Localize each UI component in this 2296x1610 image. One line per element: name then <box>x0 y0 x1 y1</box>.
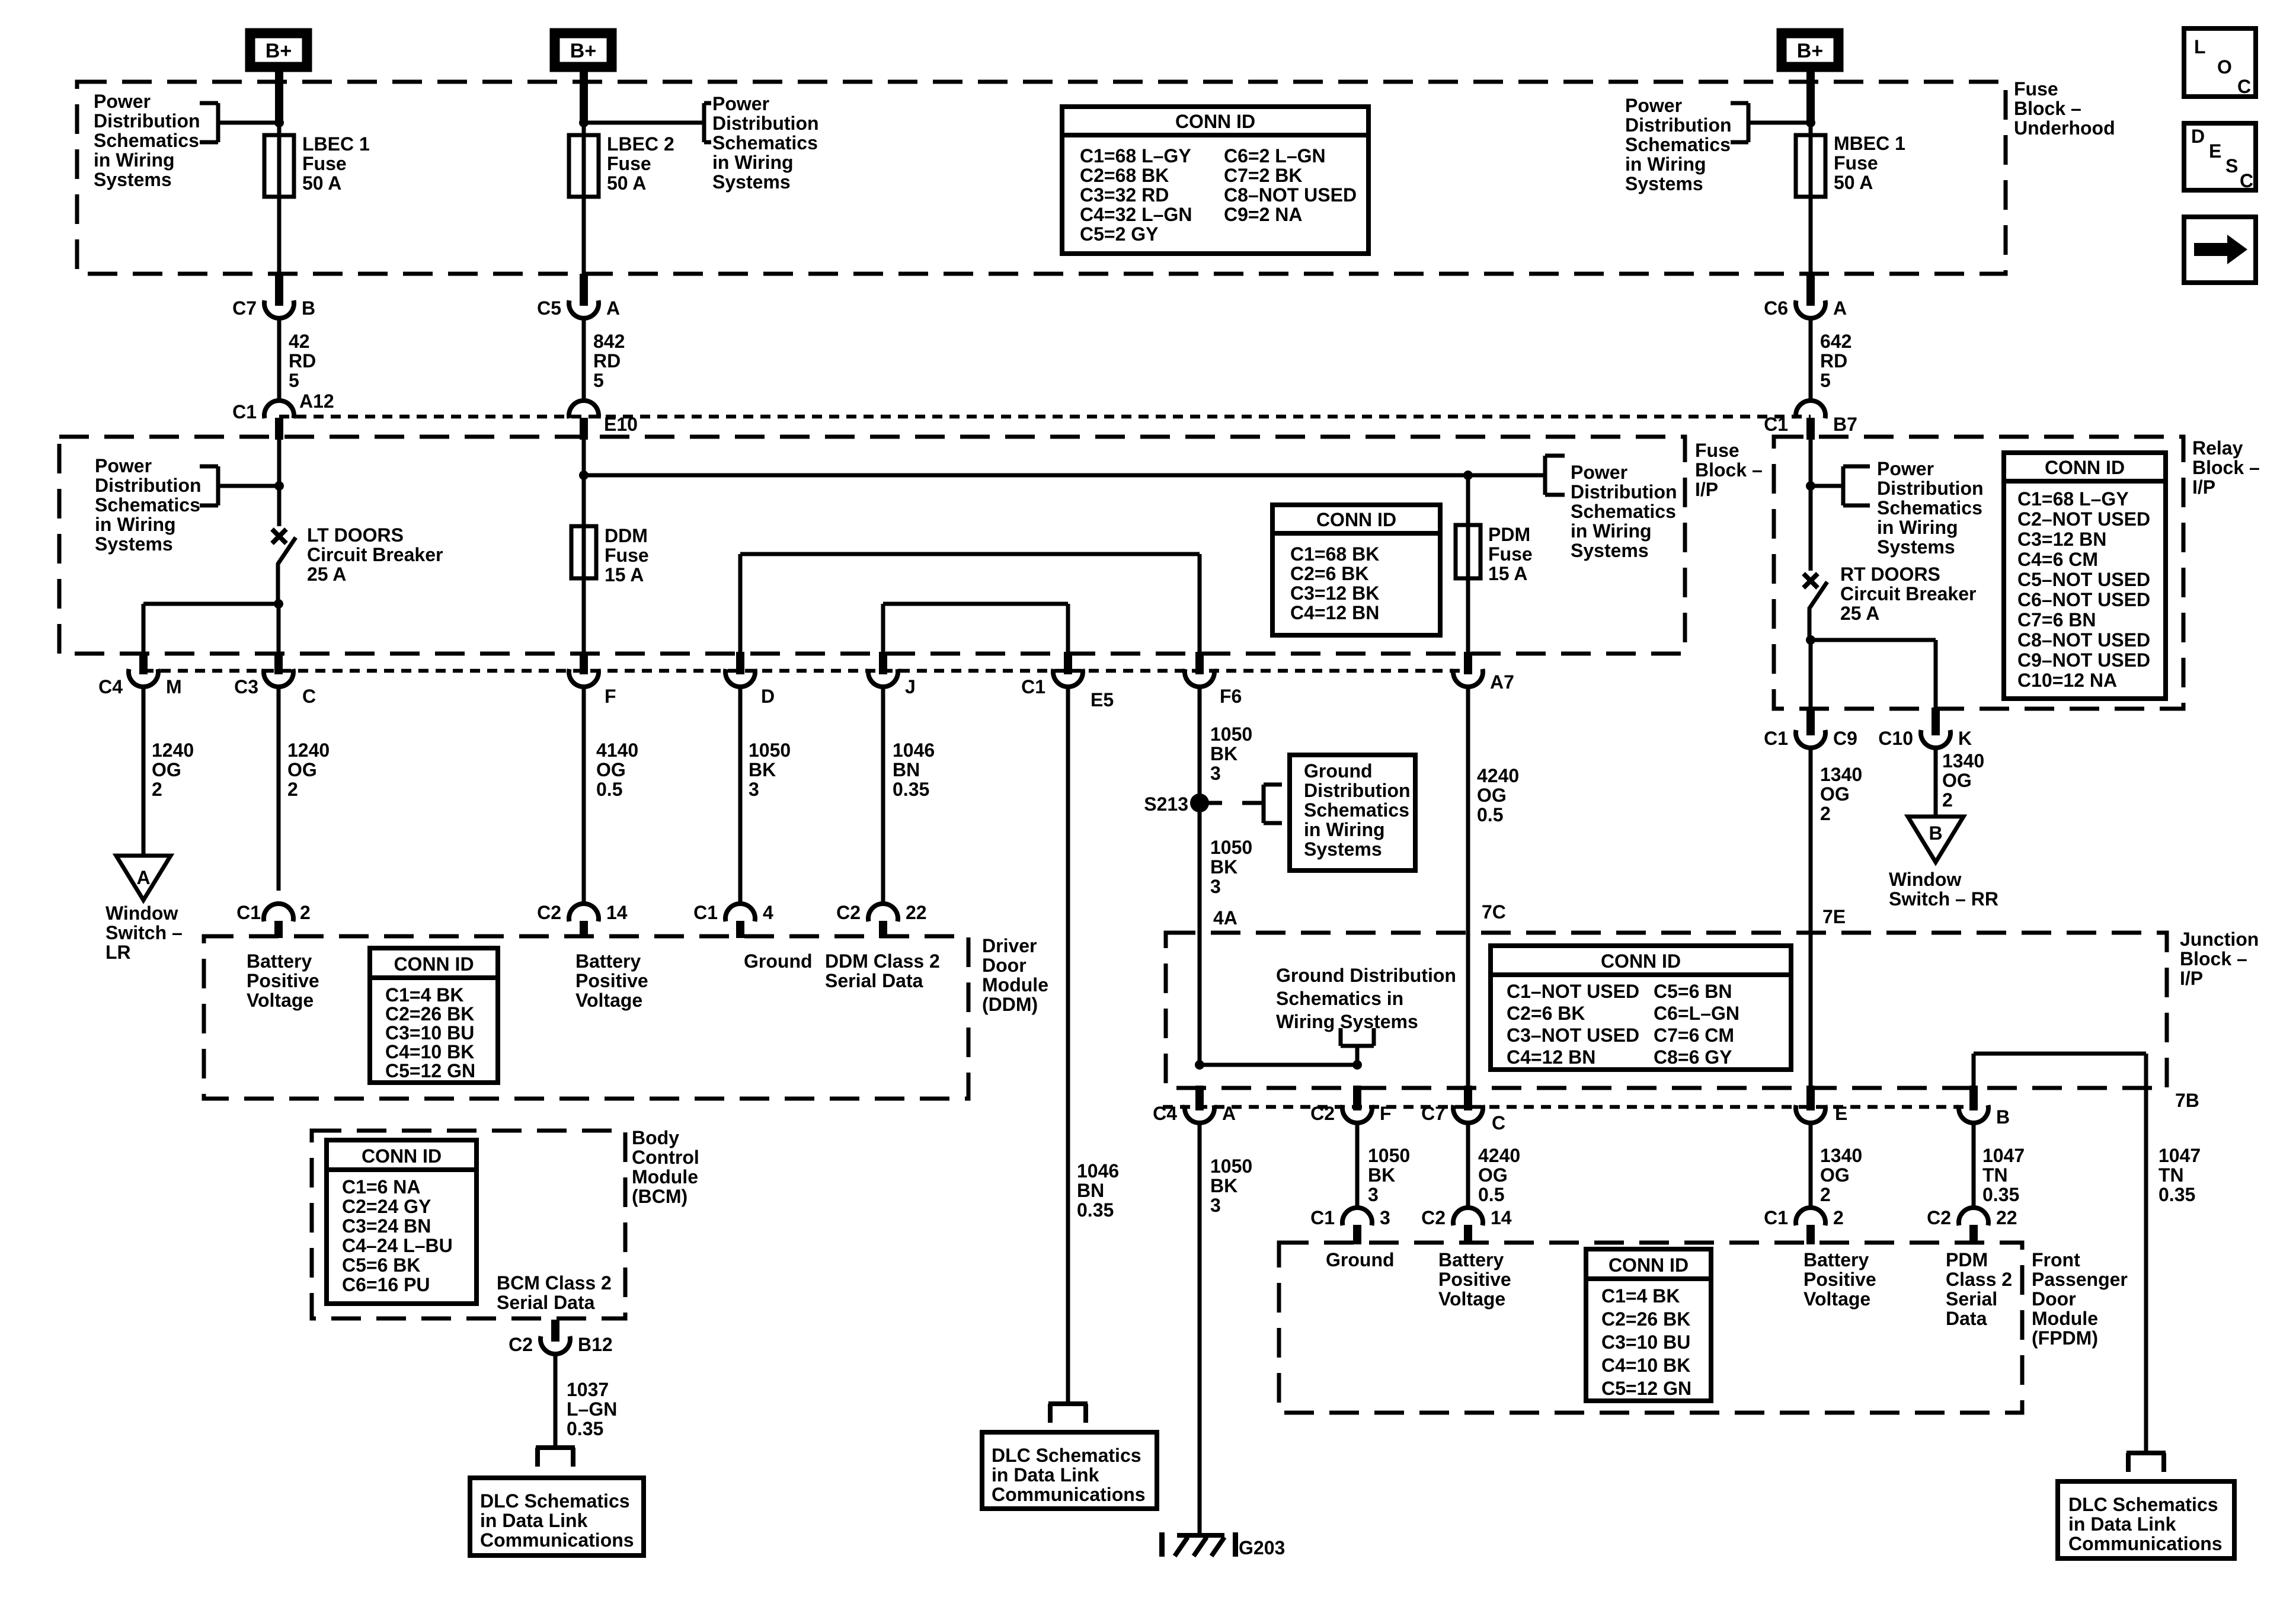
connector C7 pin B <box>275 274 283 306</box>
svg-text:E: E <box>2209 140 2221 162</box>
table CONN ID (DDM) <box>370 948 498 1083</box>
svg-text:C1=4 BK: C1=4 BK <box>1601 1285 1680 1307</box>
svg-text:C9: C9 <box>1833 728 1857 749</box>
svg-text:Distribution: Distribution <box>1877 478 1984 499</box>
svg-text:C5–NOT USED: C5–NOT USED <box>2017 569 2150 590</box>
svg-text:Voltage: Voltage <box>1803 1288 1870 1310</box>
svg-text:Voltage: Voltage <box>1438 1288 1505 1310</box>
node junction LBEC2 bracket <box>579 118 589 127</box>
svg-text:Positive: Positive <box>247 970 319 991</box>
svg-text:Battery: Battery <box>1438 1249 1504 1270</box>
svg-text:C5=12 GN: C5=12 GN <box>385 1060 475 1081</box>
svg-text:Driver: Driver <box>982 935 1037 956</box>
svg-text:50 A: 50 A <box>607 172 646 194</box>
svg-text:Passenger: Passenger <box>2032 1269 2128 1290</box>
svg-text:C7: C7 <box>1421 1103 1446 1124</box>
svg-text:C1=4 BK: C1=4 BK <box>385 984 464 1006</box>
svg-text:Block –: Block – <box>2192 457 2260 478</box>
svg-text:BK: BK <box>1210 856 1237 878</box>
svg-text:642: 642 <box>1820 331 1851 352</box>
svg-text:OG: OG <box>287 759 317 780</box>
wire 1240 OG 2 (window switch LR) <box>142 686 146 856</box>
svg-text:A: A <box>1833 297 1847 319</box>
svg-text:C: C <box>1492 1112 1505 1134</box>
svg-text:OG: OG <box>152 759 181 780</box>
circuit breaker LT DOORS 25 A <box>272 529 286 543</box>
svg-text:BK: BK <box>1368 1164 1395 1186</box>
off-page pointer to DLC (right) <box>2126 1451 2166 1455</box>
wire 642 RD 5 <box>1809 317 1813 402</box>
connector C7 pin C <box>1464 1086 1472 1110</box>
svg-text:Positive: Positive <box>1438 1269 1511 1290</box>
svg-text:Voltage: Voltage <box>247 990 314 1011</box>
svg-text:Communications: Communications <box>2068 1533 2223 1554</box>
svg-text:2: 2 <box>300 902 311 923</box>
node junction LBEC1 in fuse block I/P <box>274 481 284 491</box>
svg-text:Distribution: Distribution <box>1571 481 1677 502</box>
connector C1 pin 2 (DDM) <box>264 904 293 921</box>
svg-text:1050: 1050 <box>1210 837 1252 858</box>
wire B7 column into fuse block <box>277 440 282 526</box>
svg-text:MBEC 1: MBEC 1 <box>1834 133 1905 154</box>
svg-text:C2=24 GY: C2=24 GY <box>342 1196 431 1217</box>
svg-text:C2=6 BK: C2=6 BK <box>1290 563 1369 584</box>
wire DDM fuse to connector F <box>582 578 586 653</box>
svg-text:C3–NOT USED: C3–NOT USED <box>1507 1025 1639 1046</box>
ground G203 <box>1159 1532 1165 1557</box>
wire B+ to MBEC1 fuse <box>1806 67 1815 123</box>
svg-text:in Wiring: in Wiring <box>712 152 794 173</box>
svg-text:BK: BK <box>1210 743 1237 764</box>
svg-text:LR: LR <box>105 942 131 963</box>
svg-text:Block –: Block – <box>1695 459 1763 481</box>
symbol DESC box <box>2184 123 2256 190</box>
svg-text:3: 3 <box>749 779 759 800</box>
svg-text:TN: TN <box>1982 1164 2008 1186</box>
svg-text:LBEC 1: LBEC 1 <box>302 133 370 155</box>
svg-text:I/P: I/P <box>2180 968 2203 989</box>
node junction RT doors branch <box>1806 635 1815 645</box>
svg-text:TN: TN <box>2159 1164 2184 1186</box>
wire 1037 L-GN 0.35 <box>554 1353 558 1448</box>
svg-text:O: O <box>2217 56 2232 78</box>
svg-text:C1: C1 <box>693 902 718 923</box>
svg-text:0.35: 0.35 <box>567 1418 603 1439</box>
svg-text:in Wiring: in Wiring <box>1304 819 1385 840</box>
svg-text:L: L <box>2194 36 2206 57</box>
svg-text:G203: G203 <box>1239 1537 1285 1558</box>
svg-text:Power: Power <box>712 93 769 114</box>
svg-text:Systems: Systems <box>94 169 172 190</box>
pointer bracket Power Distribution Schematics (LBEC1) <box>218 121 279 125</box>
svg-text:5: 5 <box>289 370 299 391</box>
svg-text:4A: 4A <box>1213 907 1237 929</box>
splice S213 <box>1190 793 1209 812</box>
svg-text:D: D <box>761 686 775 707</box>
box DLC Schematics in Data Link Communications (middle) <box>982 1432 1157 1509</box>
svg-text:Schematics: Schematics <box>95 494 200 516</box>
wire PDM fuse to connector A7 <box>1466 578 1470 653</box>
connector C1 pin C9 <box>1806 708 1815 735</box>
svg-text:B+: B+ <box>266 40 292 62</box>
svg-text:Power: Power <box>95 455 152 476</box>
fuse LBEC 2 50 A <box>569 135 599 197</box>
connector C2 pin 22 (DDM) <box>868 904 898 921</box>
svg-text:7E: 7E <box>1822 906 1846 927</box>
svg-text:50 A: 50 A <box>302 172 341 194</box>
svg-text:C1: C1 <box>236 902 261 923</box>
svg-text:in Wiring: in Wiring <box>1877 517 1958 538</box>
wire K column to window switch RR <box>1934 747 1938 818</box>
svg-text:14: 14 <box>1491 1207 1512 1228</box>
wire LBEC1 fuse to connector B <box>277 197 282 275</box>
svg-text:3: 3 <box>1210 876 1221 897</box>
wire 4240 OG 0.5 (A7 to C) <box>1466 686 1470 1087</box>
svg-text:C10: C10 <box>1878 728 1913 749</box>
svg-text:in Wiring: in Wiring <box>94 149 175 171</box>
svg-text:C: C <box>2240 170 2253 191</box>
svg-text:C2: C2 <box>1421 1207 1446 1228</box>
svg-text:C10=12 NA: C10=12 NA <box>2017 670 2117 691</box>
svg-text:LBEC 2: LBEC 2 <box>607 133 674 155</box>
svg-text:CONN ID: CONN ID <box>362 1145 442 1167</box>
svg-text:Fuse: Fuse <box>302 153 347 174</box>
svg-text:Battery: Battery <box>247 950 312 972</box>
svg-text:B: B <box>1929 822 1942 844</box>
svg-text:0.5: 0.5 <box>596 779 622 800</box>
svg-text:1340: 1340 <box>1820 1145 1862 1166</box>
wire 1047 TN 0.35 (B to C2 22) <box>1972 1122 1976 1209</box>
svg-text:C6: C6 <box>1764 297 1788 319</box>
svg-text:C7=2 BK: C7=2 BK <box>1224 165 1303 186</box>
node junction ground bus left <box>1195 1060 1204 1070</box>
svg-text:A12: A12 <box>299 391 334 412</box>
svg-text:C7: C7 <box>232 297 257 319</box>
svg-text:Distribution: Distribution <box>1625 114 1732 136</box>
svg-text:2: 2 <box>152 779 162 800</box>
svg-text:0.35: 0.35 <box>1982 1184 2019 1205</box>
svg-text:2: 2 <box>287 779 298 800</box>
svg-text:1050: 1050 <box>1210 724 1252 745</box>
svg-text:Circuit Breaker: Circuit Breaker <box>307 544 443 565</box>
svg-text:OG: OG <box>1820 1164 1850 1186</box>
svg-text:C8–NOT USED: C8–NOT USED <box>2017 629 2150 651</box>
power terminal B+ (LBEC 1 feed) <box>250 33 307 67</box>
svg-text:Module: Module <box>632 1166 698 1188</box>
svg-text:C4=32 L–GN: C4=32 L–GN <box>1080 204 1192 225</box>
svg-text:B: B <box>1996 1106 2010 1128</box>
svg-text:1047: 1047 <box>2159 1145 2201 1166</box>
node junction bus at LBEC2 <box>579 470 589 480</box>
connector C4 pin A <box>1195 1086 1204 1110</box>
svg-text:C1: C1 <box>1310 1207 1335 1228</box>
svg-text:Switch –: Switch – <box>105 922 183 943</box>
svg-text:B+: B+ <box>1797 40 1823 62</box>
node junction LT doors branch <box>274 599 283 609</box>
svg-text:22: 22 <box>1996 1207 2017 1228</box>
svg-text:Systems: Systems <box>95 533 173 555</box>
svg-text:1047: 1047 <box>1982 1145 2025 1166</box>
svg-text:1050: 1050 <box>749 740 791 761</box>
fuse DDM 15 A <box>571 526 596 578</box>
svg-text:Positive: Positive <box>1803 1269 1876 1290</box>
svg-text:C1=68 L–GY: C1=68 L–GY <box>1080 145 1191 167</box>
svg-text:L–GN: L–GN <box>567 1398 617 1420</box>
connector C4 pin M <box>139 652 148 674</box>
connector pin F <box>580 652 588 674</box>
svg-text:CONN ID: CONN ID <box>1316 509 1396 530</box>
connector pin A7 <box>1464 652 1472 674</box>
svg-text:Positive: Positive <box>575 970 648 991</box>
pointer bracket Power Distribution Schematics (I/P left) <box>218 484 279 488</box>
svg-text:I/P: I/P <box>1695 479 1718 500</box>
svg-text:Block –: Block – <box>2014 98 2081 119</box>
svg-text:Ground Distribution: Ground Distribution <box>1276 965 1456 986</box>
box Driver Door Module DDM <box>204 936 968 1099</box>
svg-text:Power: Power <box>1877 458 1934 479</box>
svg-text:DLC Schematics: DLC Schematics <box>992 1445 1141 1466</box>
svg-text:Schematics: Schematics <box>94 130 199 151</box>
svg-text:Data: Data <box>1946 1308 1987 1329</box>
connector C1 pin 4 (DDM) <box>725 904 755 921</box>
svg-text:Circuit Breaker: Circuit Breaker <box>1840 583 1976 604</box>
wire 1340 OG 2 (E to C1 2) <box>1809 1122 1813 1209</box>
svg-text:C2=26 BK: C2=26 BK <box>385 1003 474 1025</box>
box Relay Block - I/P <box>1774 437 2183 709</box>
svg-text:C: C <box>302 686 316 707</box>
table CONN ID (fuse block I/P) <box>1272 505 1440 635</box>
svg-text:1050: 1050 <box>1368 1145 1410 1166</box>
svg-text:Distribution: Distribution <box>1304 780 1411 801</box>
svg-text:C9–NOT USED: C9–NOT USED <box>2017 649 2150 671</box>
svg-text:C8–NOT USED: C8–NOT USED <box>1224 184 1357 206</box>
svg-text:A: A <box>606 297 620 319</box>
svg-text:C5: C5 <box>537 297 561 319</box>
svg-text:Communications: Communications <box>992 1484 1146 1505</box>
svg-text:Block –: Block – <box>2180 948 2247 969</box>
svg-text:DLC Schematics: DLC Schematics <box>480 1490 630 1512</box>
svg-text:Module: Module <box>982 974 1048 996</box>
svg-text:Systems: Systems <box>1304 838 1382 860</box>
svg-text:OG: OG <box>1820 783 1850 805</box>
svg-text:7C: 7C <box>1482 901 1506 923</box>
off-page triangle B window switch RR <box>1908 817 1964 862</box>
connector C1 pin B7 <box>1796 401 1825 418</box>
svg-text:RT DOORS: RT DOORS <box>1840 564 1940 585</box>
svg-text:in Data Link: in Data Link <box>480 1510 588 1531</box>
svg-text:BK: BK <box>749 759 776 780</box>
box Fuse Block - I/P <box>59 437 1685 654</box>
svg-text:Distribution: Distribution <box>712 113 819 134</box>
connector C1 pin A12 <box>264 401 294 418</box>
connector pin F6 <box>1195 652 1204 674</box>
svg-text:Power: Power <box>1625 95 1682 116</box>
svg-text:Junction: Junction <box>2180 929 2259 950</box>
svg-text:1340: 1340 <box>1820 764 1862 785</box>
pointer bracket ground distribution (junction block) <box>1339 1028 1343 1046</box>
svg-text:Front: Front <box>2032 1249 2080 1270</box>
svg-text:Class 2: Class 2 <box>1946 1269 2012 1290</box>
svg-text:14: 14 <box>606 902 628 923</box>
svg-text:CONN ID: CONN ID <box>394 953 474 975</box>
table CONN ID (fuse block underhood) <box>1062 107 1368 254</box>
svg-text:3: 3 <box>1368 1184 1379 1205</box>
svg-text:C2: C2 <box>1310 1103 1335 1124</box>
wire bus LBEC2 to PDM fuse <box>584 473 1545 478</box>
svg-text:Switch – RR: Switch – RR <box>1889 888 1998 910</box>
svg-text:15 A: 15 A <box>1488 563 1527 584</box>
wire 4240 OG 0.5 (C to C2 14) <box>1466 1122 1470 1209</box>
svg-text:in Data Link: in Data Link <box>992 1464 1099 1486</box>
svg-text:CONN ID: CONN ID <box>1175 111 1255 132</box>
svg-text:I/P: I/P <box>2192 476 2215 498</box>
wire LBEC2 column to DDM fuse <box>582 440 586 526</box>
svg-text:1037: 1037 <box>567 1379 609 1400</box>
svg-text:C5=2 GY: C5=2 GY <box>1080 223 1159 245</box>
wire 842 RD 5 <box>582 317 586 402</box>
svg-text:E: E <box>1835 1103 1847 1124</box>
fuse MBEC 1 50 A <box>1796 135 1825 197</box>
svg-text:Body: Body <box>632 1127 679 1148</box>
svg-text:Voltage: Voltage <box>575 990 642 1011</box>
svg-text:Window: Window <box>1889 869 1961 890</box>
svg-text:C1=6 NA: C1=6 NA <box>342 1176 421 1198</box>
svg-text:Systems: Systems <box>1625 173 1703 194</box>
wire B+ to LBEC1 fuse <box>275 67 283 123</box>
wire 1240 OG 2 (battery positive DDM) <box>277 686 281 891</box>
off-page pointer to DLC (BCM) <box>536 1445 575 1450</box>
node junction LBEC1 bracket <box>274 118 284 127</box>
svg-text:E10: E10 <box>604 414 638 435</box>
pointer bracket Power Distribution Schematics (MBEC1) <box>1748 121 1811 125</box>
svg-text:4140: 4140 <box>596 740 638 761</box>
svg-text:0.35: 0.35 <box>893 779 929 800</box>
svg-text:C3=10 BU: C3=10 BU <box>385 1022 474 1044</box>
off-page triangle A window switch LR <box>116 856 171 900</box>
svg-text:S: S <box>2225 155 2238 177</box>
svg-text:(FPDM): (FPDM) <box>2032 1327 2098 1349</box>
svg-text:Ground: Ground <box>1326 1249 1395 1270</box>
connector pin J <box>879 652 887 674</box>
svg-text:42: 42 <box>289 331 310 352</box>
pointer bracket Power Distribution Schematics (LBEC2) <box>584 121 704 125</box>
svg-text:7B: 7B <box>2175 1090 2199 1111</box>
svg-text:Ground: Ground <box>1304 760 1373 782</box>
svg-text:1240: 1240 <box>287 740 330 761</box>
wire LBEC2 fuse to connector A <box>582 197 586 275</box>
svg-text:Ground: Ground <box>744 950 813 972</box>
svg-text:Fuse: Fuse <box>2014 78 2058 100</box>
pointer bracket Power Distribution Schematics (I/P right) <box>1468 473 1545 478</box>
svg-text:RD: RD <box>593 350 621 372</box>
svg-text:M: M <box>166 676 182 697</box>
svg-text:Door: Door <box>982 955 1027 976</box>
svg-text:C3=32 RD: C3=32 RD <box>1080 184 1169 206</box>
svg-text:DDM Class 2: DDM Class 2 <box>825 950 940 972</box>
svg-text:2: 2 <box>1833 1207 1844 1228</box>
box Front Passenger Door Module FPDM <box>1279 1243 2022 1413</box>
circuit breaker RT DOORS 25 A <box>1803 574 1818 588</box>
connector pin E10 <box>569 401 599 418</box>
svg-text:Fuse: Fuse <box>1834 152 1878 174</box>
svg-text:C2=6 BK: C2=6 BK <box>1507 1003 1585 1024</box>
svg-text:1340: 1340 <box>1942 750 1984 772</box>
svg-text:C1=68 BK: C1=68 BK <box>1290 543 1379 565</box>
svg-text:BK: BK <box>1210 1175 1237 1196</box>
svg-text:CONN ID: CONN ID <box>1601 950 1681 972</box>
svg-text:C4=12 BN: C4=12 BN <box>1507 1046 1595 1068</box>
node junction MBEC1 in relay block <box>1806 481 1815 491</box>
box Body Control Module BCM <box>312 1131 625 1318</box>
svg-text:B+: B+ <box>570 40 596 62</box>
svg-text:C1: C1 <box>232 401 257 422</box>
svg-text:C1–NOT USED: C1–NOT USED <box>1507 981 1639 1002</box>
svg-text:Serial Data: Serial Data <box>497 1292 595 1313</box>
svg-text:3: 3 <box>1210 763 1221 784</box>
svg-text:F6: F6 <box>1220 686 1242 707</box>
svg-text:Distribution: Distribution <box>95 475 202 496</box>
connector C3 pin C <box>274 652 283 674</box>
svg-text:B: B <box>302 297 315 319</box>
pointer bracket Ground Distribution (S213) <box>1204 801 1222 805</box>
wire branch to window switch LR <box>143 602 279 606</box>
svg-text:A7: A7 <box>1490 671 1514 693</box>
node junction bus at PDM fuse <box>1463 470 1473 480</box>
svg-text:Fuse: Fuse <box>1695 440 1739 461</box>
svg-text:Battery: Battery <box>1803 1249 1869 1270</box>
svg-text:S213: S213 <box>1144 793 1188 815</box>
connector C2 pin 14 (DDM) <box>569 904 599 921</box>
svg-text:15 A: 15 A <box>605 564 644 585</box>
svg-text:C3: C3 <box>234 676 258 697</box>
svg-text:C: C <box>2237 76 2251 97</box>
connector C2 pin 22 (FPDM) <box>1959 1208 1988 1225</box>
svg-text:OG: OG <box>596 759 626 780</box>
connector pin D <box>736 652 744 674</box>
connector row dotted line (C1 A12 - E10 - C1 B7) <box>279 415 1811 419</box>
svg-text:Module: Module <box>2032 1308 2098 1329</box>
power terminal B+ (LBEC 2 feed) <box>555 33 612 67</box>
svg-text:C8=6 GY: C8=6 GY <box>1654 1046 1732 1068</box>
box Ground Distribution Schematics in Wiring Systems (S213) <box>1290 755 1415 870</box>
svg-text:0.5: 0.5 <box>1478 1184 1504 1205</box>
svg-text:Door: Door <box>2032 1288 2076 1310</box>
wire 1046 BN 0.35 (E5 to DLC) <box>1066 686 1070 1402</box>
svg-text:C4: C4 <box>1153 1103 1177 1124</box>
fuse PDM 15 A <box>1466 475 1470 525</box>
svg-text:Schematics in: Schematics in <box>1276 988 1403 1009</box>
svg-text:Battery: Battery <box>575 950 641 972</box>
box DLC Schematics in Data Link Communications (right) <box>2058 1481 2234 1558</box>
svg-text:C2: C2 <box>537 902 561 923</box>
svg-text:5: 5 <box>593 370 604 391</box>
pointer bracket Power Distribution Schematics (relay) <box>1811 484 1843 488</box>
svg-text:Serial: Serial <box>1946 1288 1997 1310</box>
svg-text:Systems: Systems <box>1571 540 1649 561</box>
svg-text:0.35: 0.35 <box>2159 1184 2195 1205</box>
svg-text:Power: Power <box>1571 462 1627 483</box>
svg-text:OG: OG <box>1478 1164 1508 1186</box>
wire jumper J to E5 <box>883 602 1068 606</box>
wire branch to window switch RR <box>1811 638 1936 642</box>
svg-text:1046: 1046 <box>893 740 935 761</box>
node junction MBEC1 bracket <box>1806 118 1815 127</box>
svg-text:C2=68 BK: C2=68 BK <box>1080 165 1169 186</box>
svg-text:B12: B12 <box>578 1334 613 1355</box>
fuse LBEC 1 50 A <box>264 135 294 197</box>
svg-text:A: A <box>136 867 150 888</box>
off-page pointer to DLC (E5) <box>1048 1401 1088 1406</box>
